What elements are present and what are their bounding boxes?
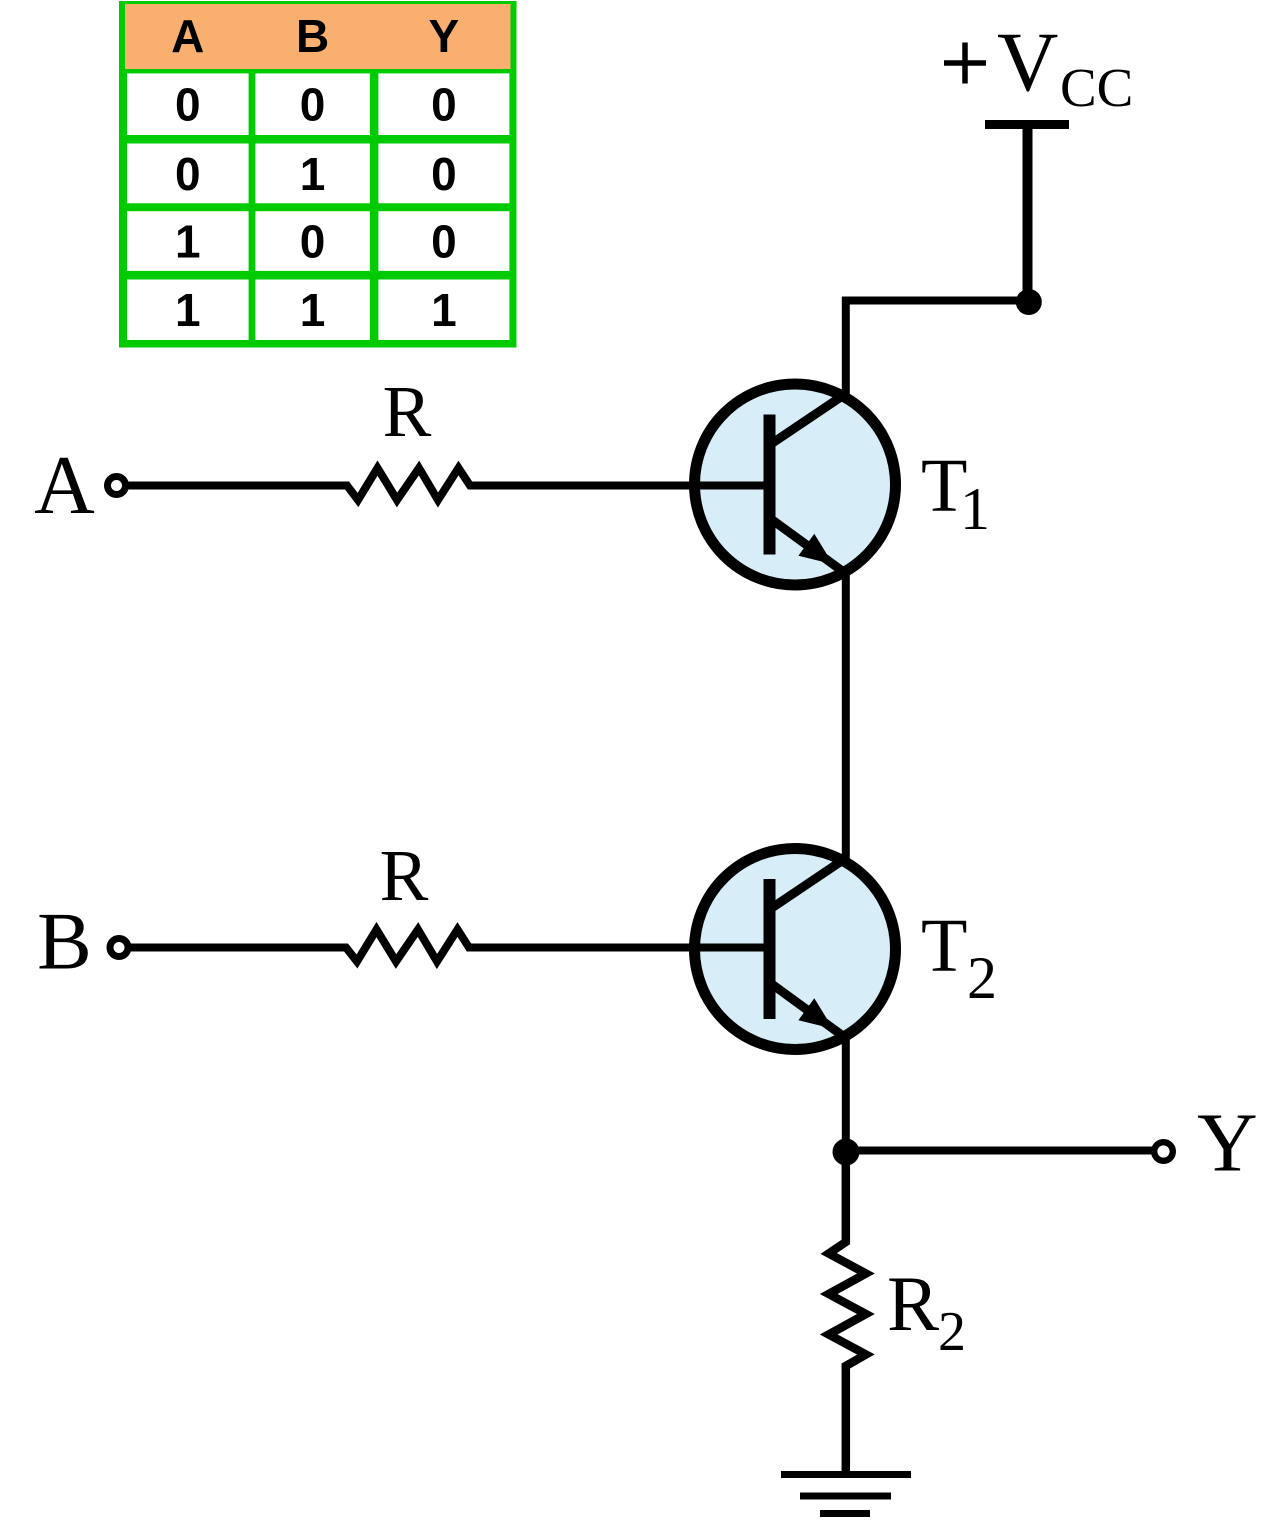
- svg-text:2: 2: [967, 945, 997, 1011]
- svg-text:0: 0: [431, 216, 457, 268]
- svg-text:1: 1: [300, 148, 326, 200]
- svg-text:V: V: [997, 15, 1058, 109]
- svg-text:A: A: [34, 439, 95, 532]
- svg-text:A: A: [171, 10, 204, 62]
- svg-text:2: 2: [938, 1301, 966, 1363]
- svg-text:R: R: [887, 1260, 939, 1347]
- svg-text:0: 0: [175, 79, 201, 131]
- svg-text:R: R: [383, 371, 432, 452]
- svg-text:R: R: [380, 835, 429, 916]
- svg-text:1: 1: [960, 476, 990, 542]
- svg-text:CC: CC: [1060, 57, 1133, 118]
- svg-text:B: B: [37, 896, 92, 987]
- svg-text:1: 1: [300, 284, 326, 336]
- svg-text:Y: Y: [429, 10, 460, 62]
- svg-text:B: B: [296, 10, 329, 62]
- svg-text:0: 0: [300, 216, 326, 268]
- svg-text:1: 1: [175, 216, 201, 268]
- svg-text:T: T: [921, 904, 967, 988]
- svg-text:0: 0: [431, 148, 457, 200]
- svg-text:0: 0: [175, 148, 201, 200]
- svg-text:0: 0: [300, 79, 326, 131]
- svg-text:1: 1: [175, 284, 201, 336]
- svg-text:Y: Y: [1197, 1097, 1258, 1190]
- svg-text:0: 0: [431, 79, 457, 131]
- svg-text:1: 1: [431, 284, 457, 336]
